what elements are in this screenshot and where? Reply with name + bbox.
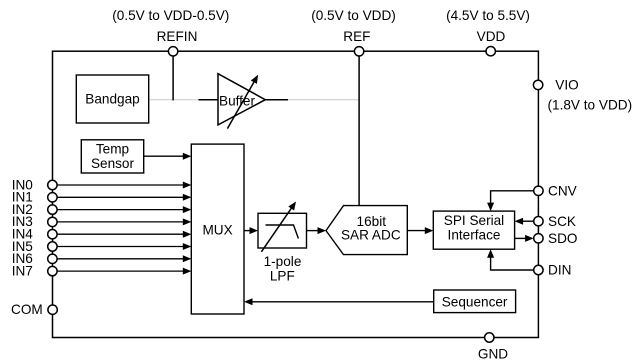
block MUX bbox=[191, 144, 244, 314]
wire REFIN stub bbox=[172, 56, 174, 101]
svg-text:SAR ADC: SAR ADC bbox=[341, 228, 401, 243]
wire Temp Sensor to MUX bbox=[144, 153, 192, 160]
pin IN5 bbox=[48, 242, 57, 251]
svg-text:DIN: DIN bbox=[548, 263, 571, 278]
pin VIO bbox=[533, 80, 542, 89]
pin COM bbox=[48, 305, 57, 314]
svg-text:(4.5V to 5.5V): (4.5V to 5.5V) bbox=[446, 8, 530, 23]
svg-text:SCK: SCK bbox=[548, 214, 576, 229]
pin CNV bbox=[534, 186, 543, 195]
svg-text:LPF: LPF bbox=[270, 269, 295, 284]
svg-text:Sensor: Sensor bbox=[91, 156, 135, 171]
wire IN2 to MUX bbox=[57, 206, 191, 213]
buffer amplifier (variable) bbox=[218, 74, 265, 129]
wire IN6 to MUX bbox=[57, 255, 191, 262]
svg-text:GND: GND bbox=[478, 346, 508, 361]
wire CNV to SPI bbox=[487, 191, 533, 211]
block 16bit SAR ADC bbox=[326, 206, 407, 255]
pin VDD bbox=[486, 47, 495, 56]
svg-text:(1.8V to VDD): (1.8V to VDD) bbox=[548, 97, 633, 112]
wire buffer output lead bbox=[265, 99, 288, 101]
svg-text:Bandgap: Bandgap bbox=[85, 92, 139, 107]
svg-text:SDO: SDO bbox=[548, 231, 577, 246]
pin IN1 bbox=[48, 193, 57, 202]
svg-text:REFIN: REFIN bbox=[157, 29, 198, 44]
wire Sequencer to MUX bbox=[244, 298, 434, 305]
wire IN4 to MUX bbox=[57, 231, 191, 238]
pin IN0 bbox=[48, 180, 57, 189]
wire IN0 to MUX bbox=[57, 182, 191, 189]
wire buffer input lead bbox=[199, 99, 219, 101]
wire IN1 to MUX bbox=[57, 194, 191, 201]
svg-text:(0.5V to VDD-0.5V): (0.5V to VDD-0.5V) bbox=[112, 8, 229, 23]
block SPI Serial Interface bbox=[433, 211, 514, 249]
svg-text:SPI Serial: SPI Serial bbox=[444, 213, 504, 228]
pin SDO bbox=[534, 234, 543, 243]
wire IN7 to MUX bbox=[57, 268, 191, 275]
wire SCK to SPI bbox=[515, 218, 534, 225]
wire IN5 to MUX bbox=[57, 243, 191, 250]
svg-text:Interface: Interface bbox=[448, 228, 501, 243]
svg-text:(0.5V to VDD): (0.5V to VDD) bbox=[311, 8, 396, 23]
svg-text:COM: COM bbox=[11, 302, 43, 317]
filter 1-pole LPF bbox=[258, 202, 307, 284]
pin REFIN bbox=[168, 47, 177, 56]
svg-text:VIO: VIO bbox=[555, 78, 578, 93]
svg-text:CNV: CNV bbox=[548, 184, 577, 199]
pin DIN bbox=[534, 265, 543, 274]
svg-text:16bit: 16bit bbox=[357, 214, 387, 229]
pin GND bbox=[485, 333, 494, 342]
pin IN7 bbox=[48, 266, 57, 275]
block Temp Sensor bbox=[81, 140, 143, 173]
block Sequencer bbox=[434, 290, 516, 313]
pin IN4 bbox=[48, 230, 57, 239]
net internal REF (gray) bbox=[149, 99, 359, 101]
pin SCK bbox=[534, 217, 543, 226]
wire DIN to SPI bbox=[487, 249, 533, 270]
svg-text:Temp: Temp bbox=[96, 142, 129, 157]
wire LPF to SAR ADC bbox=[307, 227, 327, 234]
pin IN2 bbox=[48, 205, 57, 214]
pin IN6 bbox=[48, 254, 57, 263]
wire REF to SAR ADC bbox=[358, 56, 360, 206]
svg-text:VDD: VDD bbox=[477, 29, 506, 44]
svg-text:REF: REF bbox=[343, 29, 370, 44]
wire SPI to SDO bbox=[515, 235, 534, 242]
svg-text:Buffer: Buffer bbox=[219, 93, 255, 108]
pin IN3 bbox=[48, 217, 57, 226]
svg-text:MUX: MUX bbox=[202, 223, 232, 238]
wire IN3 to MUX bbox=[57, 218, 191, 225]
svg-text:1-pole: 1-pole bbox=[264, 254, 302, 269]
block Bandgap bbox=[76, 75, 148, 123]
svg-text:IN7: IN7 bbox=[12, 263, 33, 278]
chip boundary bbox=[53, 51, 539, 337]
wire MUX to LPF bbox=[244, 227, 258, 234]
pin REF bbox=[354, 47, 363, 56]
svg-text:Sequencer: Sequencer bbox=[442, 295, 508, 310]
wire SAR ADC to SPI bbox=[407, 227, 433, 234]
